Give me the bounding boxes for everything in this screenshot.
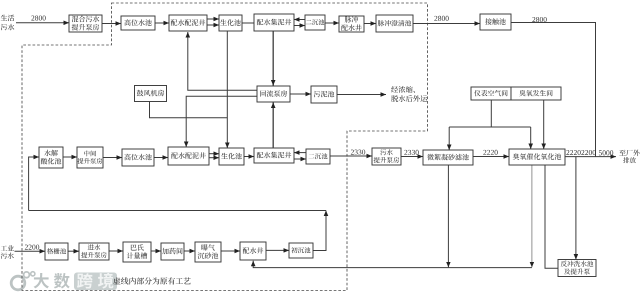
wire 二沉池2→污水提升泵房 (2330) <box>330 155 372 157</box>
box 二沉池(下) <box>306 149 330 164</box>
wire 二沉池→脉冲配水井 <box>325 22 339 24</box>
wire 配水配泥井⇒生化池 lower <box>207 24 219 26</box>
label 2330 <box>404 150 418 155</box>
wire 配水集泥井→回流泵房 <box>272 31 274 86</box>
box 仪表空气间 <box>471 87 511 100</box>
wire 微絮凝砂滤池 反冲洗排水 <box>447 165 449 267</box>
text 工业污水 line2 <box>1 252 14 258</box>
wire 空气→臭氧催化氧化池 <box>530 127 532 149</box>
box 反冲洗水池及提升泵 <box>558 260 596 277</box>
text 排放 <box>623 157 636 163</box>
text 生活污水 line1 <box>1 15 15 21</box>
dashed boundary 原有工艺范围 <box>22 3 428 291</box>
label 2800 <box>434 16 448 21</box>
box 配水井 <box>240 242 266 260</box>
wire 二沉池→配水集泥井 return <box>294 19 305 21</box>
label 2800 <box>31 16 45 21</box>
label 2220 <box>566 150 580 155</box>
box 臭氧催化氧化池 <box>509 149 565 165</box>
wire 配水配泥井⇒生化池 upper <box>207 18 219 20</box>
wire 仪表空气间 down <box>490 99 492 127</box>
box 配水配泥井(下) <box>168 147 209 165</box>
box 中间提升泵房 <box>77 147 103 168</box>
wire 配水配泥井2⇒生化池2 upper <box>209 153 219 155</box>
label 2200 <box>25 245 39 250</box>
box 高位水池(上) <box>121 16 155 30</box>
wire 曝气沉砂池→配水井 <box>221 250 240 252</box>
box 污泥池 <box>311 86 337 103</box>
wire 格栅池→进水提升泵房 <box>68 250 79 252</box>
wire 初沉池水→水解酸化池 inlet <box>29 157 39 211</box>
box 进水提升泵房 <box>79 243 109 260</box>
wire 配水井→初沉池 <box>266 249 289 251</box>
wire 水解酸化池→中间提升泵房 <box>63 156 77 158</box>
box 混合污水提升泵房 <box>69 15 102 32</box>
wire 空气→微絮凝砂滤池 <box>448 127 450 150</box>
label 2200 <box>581 150 595 155</box>
box 二沉池(上) <box>305 15 325 30</box>
wire 二沉池2→配水集泥井2 return <box>294 152 306 154</box>
box 生化池(下) <box>219 148 244 165</box>
wire 生化池—配水集泥井 <box>242 22 254 24</box>
box 水解酸化池 <box>39 147 63 168</box>
wire 回流泵房→配水配泥井(上) <box>188 32 257 90</box>
wire 巴氏计量槽→加药间 <box>151 250 161 252</box>
box 加药间 <box>161 243 184 260</box>
text 脱水后外运 <box>391 95 427 102</box>
wire 生活污水→混合污水提升泵房 (2800) <box>16 22 69 24</box>
wire 脉冲澄清池→接触池 (2800) <box>413 23 480 25</box>
wire 回流干管(初沉池→水解酸化池) <box>29 210 326 212</box>
label 2330 <box>351 150 365 155</box>
wire 工业污水→格栅池 (2200) <box>15 250 46 252</box>
watermark logo <box>11 272 35 290</box>
wire 配水配泥井2⇒生化池2 lower <box>209 157 219 159</box>
wire 脉冲配水井→脉冲澄清池 <box>364 23 376 25</box>
wire 配水集泥井→二沉池 <box>294 25 305 27</box>
wire 污泥池→外运 <box>337 94 386 96</box>
wire 进水提升泵房→巴氏计量槽 <box>109 250 123 252</box>
text 工业污水 line1 <box>1 245 14 251</box>
box 巴氏计量槽 <box>123 242 151 262</box>
box 脉冲配水井 <box>339 16 364 32</box>
wire 臭氧池→反冲洗水池 <box>545 165 558 269</box>
text 生活污水 line2 <box>1 24 15 30</box>
box 鼓风机房 <box>135 86 167 102</box>
wire 仪表空气 manifold <box>449 126 531 128</box>
wire 加药间→曝气沉砂池 <box>184 250 195 252</box>
text 注记 虚线内部分为原有工艺 <box>113 277 190 284</box>
box 脉冲澄清池 <box>376 15 413 32</box>
wire 污水提升泵房→微絮凝砂滤池 (2330) <box>401 156 423 158</box>
wire 高位水池→配水配泥井2 <box>154 157 168 159</box>
wire 生化池2→配水集泥井2 <box>244 156 254 158</box>
wire 鼓风机房 air pipe <box>150 102 228 118</box>
wire →反冲洗水池及提升泵 <box>575 157 577 260</box>
wire 混合污水提升泵房→高位水池 <box>102 23 121 25</box>
wire 回流泵房→配水配泥井(下) <box>186 96 257 147</box>
label 2800 <box>532 17 546 22</box>
box 高位水池(下) <box>122 149 154 166</box>
wire 臭氧发生间→臭氧催化氧化池 <box>543 99 545 149</box>
wire 微絮凝砂滤池→臭氧催化氧化池 (2220) <box>473 156 509 158</box>
box 臭氧发生间 <box>511 87 561 100</box>
wire 中间提升泵房→高位水池 <box>103 157 122 159</box>
box 污水提升泵房 <box>372 148 401 165</box>
watermark text 大数跨境 <box>34 273 114 289</box>
wire 初沉池→上行管 <box>313 211 326 251</box>
wire 排水干管→配水井 <box>253 261 532 268</box>
box 配水配泥井(上) <box>169 15 207 31</box>
wire 接触池→排放管 (2800) <box>511 23 596 157</box>
box 曝气沉砂池 <box>195 242 221 262</box>
wire 臭氧催化氧化池→排放 (2220/2200/5000) <box>565 156 616 158</box>
text 至厂外 <box>619 150 639 156</box>
label 5000 <box>599 150 613 155</box>
box 配水集泥井(上) <box>254 14 294 31</box>
box 回流泵房 <box>257 86 290 102</box>
wire 臭氧催化氧化池 排水(细) <box>531 165 533 268</box>
box 生化池(上) <box>219 15 242 31</box>
box 微絮凝砂滤池 <box>423 150 473 165</box>
watermark pill 跨境 <box>74 273 117 291</box>
box 配水集泥井(下) <box>254 148 294 163</box>
wire 高位水池→配水配泥井 <box>155 22 169 24</box>
wire 回流泵房→污泥池 <box>290 93 311 95</box>
box 接触池 <box>480 14 511 30</box>
text 经浓缩、 <box>391 86 415 93</box>
label 2220 <box>483 150 497 155</box>
wire 配水集泥井2→二沉池2 <box>294 158 306 160</box>
box 格栅池 <box>45 243 68 260</box>
wire 配水集泥井2→回流泵房 <box>272 103 274 148</box>
box 初沉池 <box>289 243 313 258</box>
wire 生化池↓生化池 air main <box>226 31 228 148</box>
